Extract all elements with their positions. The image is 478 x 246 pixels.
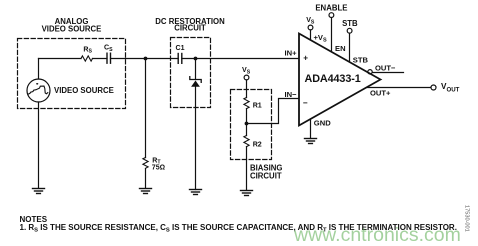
resistor R1 (244, 98, 249, 109)
svg-text:STB: STB (353, 55, 369, 64)
diode D1 (zener) (190, 77, 201, 83)
wire: VS to +VS pin (310, 30, 312, 40)
label BIASING CIRCUIT (250, 164, 283, 181)
label R1 (253, 101, 262, 109)
video source VS1 (circle with waveform) (27, 79, 50, 102)
label ANALOG VIDEO SOURCE (42, 17, 102, 34)
wire: OUT- stub (372, 72, 403, 74)
wire: main rail left (39, 58, 82, 60)
svg-text:C1: C1 (176, 44, 185, 52)
ground (amp GND) (305, 139, 317, 144)
label R2 (253, 140, 262, 148)
svg-text:R1: R1 (253, 101, 262, 109)
label C1 (176, 44, 185, 52)
svg-text:−: − (303, 99, 308, 108)
pin label IN+ (284, 48, 297, 98)
wire: CS to C1 (111, 58, 179, 60)
ground (diode) (190, 190, 202, 195)
node: junction to diode D1 (194, 57, 198, 61)
node: junction to RT (144, 57, 148, 61)
wire: junction down to diode (195, 59, 197, 80)
capacitor C1 (178, 54, 182, 64)
svg-text:R2: R2 (253, 140, 262, 148)
terminal STB (342, 19, 358, 28)
svg-text:EN: EN (335, 44, 346, 53)
wire: RT to ground (145, 169, 147, 188)
resistor RS (81, 56, 93, 61)
terminal VS (biasing) (242, 66, 251, 75)
terminal ENABLE (315, 4, 347, 13)
label VIDEO SOURCE (54, 86, 114, 95)
wire: C1 to amp IN+ (182, 58, 299, 60)
dashed box: DC restoration circuit (171, 38, 211, 108)
svg-text:75Ω: 75Ω (152, 164, 165, 172)
svg-text:OUT−: OUT− (375, 64, 396, 73)
terminal OUT- (368, 70, 372, 74)
svg-text:ADA4433-1: ADA4433-1 (305, 73, 361, 85)
pin label OUT- (375, 64, 396, 73)
ground (video source) (33, 189, 45, 194)
wire: R1 to node (246, 109, 248, 136)
ground (RT) (140, 189, 152, 194)
svg-text:+: + (303, 53, 308, 62)
resistor RT (143, 158, 148, 169)
wire: GND pin to ground (310, 119, 312, 139)
svg-text:www.cntronics.com: www.cntronics.com (293, 224, 461, 246)
svg-text:CIRCUIT: CIRCUIT (250, 171, 282, 180)
wire: ENABLE to EN pin (331, 18, 333, 52)
wire: junction down to RT (145, 59, 147, 158)
wire: video source top to main rail (38, 59, 40, 80)
pin label STB (353, 55, 369, 64)
svg-text:CIRCUIT: CIRCUIT (174, 24, 206, 33)
label VOUT (441, 82, 460, 94)
wire: R2 to ground (246, 147, 248, 190)
label DC RESTORATION CIRCUIT (155, 17, 225, 33)
capacitor CS (107, 53, 111, 63)
wire: diode to ground (195, 87, 197, 190)
notes (20, 215, 457, 234)
pin label EN (335, 44, 346, 53)
node: R1/R2 junction (245, 122, 249, 126)
svg-text:STB: STB (342, 19, 358, 28)
op-amp U1 ADA4433-1 (299, 34, 381, 126)
svg-text:IN+: IN+ (284, 48, 297, 57)
svg-text:GND: GND (314, 118, 331, 127)
terminal VS (amp supply) (306, 16, 315, 25)
wire (93, 58, 108, 60)
svg-text:ENABLE: ENABLE (315, 4, 347, 13)
wire: STB to STB pin (349, 33, 351, 62)
wire: VS to R1 (246, 80, 248, 98)
resistor R2 (244, 136, 249, 147)
terminal VOUT (431, 85, 436, 90)
svg-text:17530-001: 17530-001 (464, 205, 470, 232)
svg-text:OUT+: OUT+ (370, 89, 391, 98)
labels RS, CS (83, 44, 113, 55)
wire: node to amp IN- (247, 99, 300, 124)
svg-text:VIDEO SOURCE: VIDEO SOURCE (42, 25, 102, 34)
pin label OUT+ (370, 89, 391, 98)
wire: OUT+ to VOUT (367, 87, 431, 89)
pin label +VS (314, 33, 328, 44)
svg-text:IN−: IN− (284, 90, 297, 99)
ground (biasing) (241, 191, 253, 196)
dashed box: biasing circuit (231, 90, 272, 160)
wire: video source bottom to ground (38, 102, 40, 188)
svg-text:VIDEO SOURCE: VIDEO SOURCE (54, 86, 114, 95)
labels RT, 75 ohm (152, 156, 165, 171)
pin label GND (314, 118, 331, 127)
dashed box: analog video source (18, 39, 126, 109)
